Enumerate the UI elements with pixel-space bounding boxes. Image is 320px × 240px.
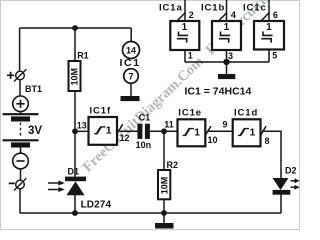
svg-text:1: 1 — [266, 22, 272, 33]
wire battery cell to minus circle — [20, 148, 22, 154]
inverter IC1c — [254, 13, 284, 50]
wire R1 branch top — [74, 28, 76, 61]
wire D2 cathode to rail — [280, 195, 282, 214]
svg-text:1: 1 — [188, 50, 193, 60]
svg-text:IC1b: IC1b — [201, 2, 225, 13]
wire IC1c input stub — [268, 0, 270, 21]
wire minus circle to terminal — [20, 169, 22, 181]
svg-text:3V: 3V — [28, 125, 42, 137]
wire pin7 ground stub — [130, 84, 132, 96]
wire IC1a output to bus — [184, 50, 186, 62]
svg-text:10: 10 — [208, 135, 218, 145]
wire gate bus ground stub — [226, 62, 228, 74]
wire IC1a input stub — [184, 0, 186, 21]
svg-text:1: 1 — [250, 127, 256, 139]
svg-text:R1: R1 — [77, 50, 89, 60]
svg-text:D2: D2 — [285, 166, 297, 176]
svg-text:BT1: BT1 — [25, 84, 42, 94]
wire ground stub at R2 — [163, 213, 165, 223]
svg-text:IC1e: IC1e — [178, 108, 202, 119]
svg-text:IC1: IC1 — [120, 57, 141, 69]
svg-text:9: 9 — [223, 119, 228, 129]
pin 7 GND — [124, 69, 139, 84]
svg-text:4: 4 — [231, 10, 236, 20]
svg-text:1: 1 — [194, 127, 200, 139]
wire IC1d output to D2 — [262, 131, 281, 178]
inverter IC1a — [170, 13, 199, 50]
svg-text:5: 5 — [272, 51, 277, 61]
wire R2 to rail — [163, 199, 165, 213]
wire R2 branch — [163, 131, 165, 170]
wire IC1b output to bus — [226, 50, 228, 62]
wire IC1f output to C1 — [120, 130, 138, 132]
svg-text:R2: R2 — [167, 160, 179, 170]
wire bottom ground rail — [20, 212, 281, 214]
svg-text:10n: 10n — [136, 140, 152, 150]
svg-text:LD274: LD274 — [81, 199, 112, 210]
wire battery plus to plate — [20, 111, 22, 114]
pin 14 Vcc — [123, 42, 140, 59]
svg-text:6: 6 — [273, 10, 278, 20]
resistor R2 10M — [158, 170, 170, 199]
svg-text:1: 1 — [106, 125, 112, 137]
wire Vcc stub to pin 14 — [130, 28, 132, 42]
node junction top rail R1 — [72, 25, 78, 31]
capacitor C1 10n — [137, 124, 150, 139]
wire IC1f input — [75, 130, 89, 132]
node junction D1 rail — [72, 210, 78, 216]
wire IC1e to IC1d — [207, 130, 233, 132]
node junction IC1f input — [72, 128, 78, 134]
node junction C1 to R2 — [161, 128, 167, 134]
svg-text:10M: 10M — [70, 68, 80, 86]
terminal plus of battery — [7, 69, 26, 81]
svg-text:1: 1 — [182, 22, 188, 33]
svg-text:IC1f: IC1f — [90, 106, 112, 117]
svg-text:3: 3 — [228, 51, 233, 61]
wire top positive rail — [20, 27, 132, 29]
LED D2 — [273, 178, 300, 195]
svg-text:7: 7 — [128, 71, 133, 81]
inverter IC1b — [212, 13, 241, 50]
ground unused gates — [218, 74, 235, 79]
resistor R1 10M — [69, 61, 81, 91]
svg-text:D1: D1 — [68, 167, 80, 177]
svg-text:IC1 = 74HC14: IC1 = 74HC14 — [185, 86, 252, 98]
svg-text:13: 13 — [77, 121, 87, 131]
svg-text:C1: C1 — [139, 113, 151, 123]
photodiode D1 LD274 — [48, 177, 86, 196]
svg-text:IC1a: IC1a — [159, 2, 183, 13]
svg-text:1: 1 — [224, 22, 230, 33]
inverter IC1e — [178, 119, 211, 146]
wire ground bus of unused gates — [185, 61, 269, 63]
wire terminal to battery — [19, 80, 21, 96]
inverter IC1d — [233, 119, 266, 146]
wire R1 to node and D1 — [74, 91, 76, 177]
inverter IC1f — [89, 117, 123, 145]
node junction gate bus — [223, 59, 229, 65]
ground at R2 — [155, 223, 174, 229]
terminal minus of battery — [9, 178, 27, 190]
svg-text:12: 12 — [120, 133, 130, 143]
svg-text:IC1d: IC1d — [234, 108, 258, 119]
wire left rail upper — [19, 28, 21, 71]
battery BT1 3V — [3, 96, 39, 169]
svg-text:14: 14 — [126, 45, 136, 55]
wire IC1b input stub — [226, 0, 228, 21]
svg-text:2: 2 — [189, 10, 194, 20]
svg-text:11: 11 — [164, 119, 174, 129]
wire D1 anode to rail — [74, 195, 76, 213]
wire IC1c output to bus — [268, 50, 270, 62]
svg-text:8: 8 — [265, 136, 270, 146]
svg-text:10M: 10M — [159, 177, 169, 195]
node junction R2 rail — [161, 210, 167, 216]
wire C1 to IC1e input — [150, 130, 178, 132]
ground IC1 pin 7 — [121, 96, 140, 101]
svg-text:IC1c: IC1c — [243, 2, 267, 13]
wire terminal to bottom rail — [19, 189, 21, 213]
